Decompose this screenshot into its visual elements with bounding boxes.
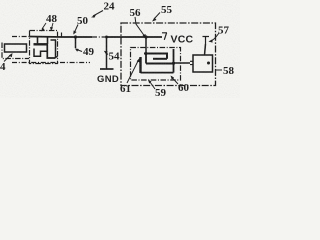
dash-dot boundary line lower xyxy=(12,62,90,64)
dashed box 48 (pass transistor cell) xyxy=(30,31,58,64)
leader arrow for 55 xyxy=(152,13,160,22)
junction dot drain node xyxy=(172,62,175,65)
junction dot at node 56 xyxy=(144,35,147,38)
label 58 with dash leader xyxy=(216,69,222,71)
label 60 xyxy=(178,82,190,94)
transistor Q1 in box 48 xyxy=(34,37,49,45)
dash-dot wire into box 48 xyxy=(12,36,30,38)
junction node 54 xyxy=(105,36,108,39)
label 24 xyxy=(104,1,116,13)
wire from rail down into inner box xyxy=(145,37,147,54)
leader arrow for 60 xyxy=(171,76,179,85)
label 59 xyxy=(155,87,167,99)
transistor Q2 in box 48 xyxy=(34,40,58,58)
label 48 xyxy=(46,13,58,25)
GND label xyxy=(97,74,119,85)
terminal 57 pin xyxy=(203,37,210,45)
paper speckle texture xyxy=(0,0,240,98)
wire terminal 57 to box 58 xyxy=(205,44,206,55)
label 55 xyxy=(161,4,173,16)
wire stub node 49 xyxy=(75,37,77,48)
label 61 xyxy=(120,83,131,95)
VCC label xyxy=(171,34,194,46)
inner dashed box (cell 59-60) xyxy=(131,48,181,81)
leader arrow for 49 xyxy=(75,48,82,51)
leader arrow for 56 xyxy=(135,17,146,39)
component 4 body rectangle xyxy=(5,44,27,52)
leader arrow for 4 xyxy=(4,53,13,62)
ground bar xyxy=(100,68,114,70)
resistor box 58 xyxy=(193,55,213,72)
leader arrow for 61 xyxy=(127,58,140,83)
label 54 xyxy=(109,51,121,63)
leader arrow for 59 xyxy=(148,80,155,90)
terminal tick on rail xyxy=(61,33,63,38)
leader arrows for 48 xyxy=(41,23,53,32)
dot inside box 58 xyxy=(207,62,210,65)
transistor Q4 (lower, in inner box) xyxy=(141,49,174,73)
dash-dot outer box 55 xyxy=(121,23,216,86)
label 50 xyxy=(77,15,89,27)
transistor Q3 (upper, in inner box) xyxy=(144,54,174,64)
VCC terminal pin xyxy=(162,33,167,40)
label 4 xyxy=(0,61,6,73)
leader arrow for 24 xyxy=(91,11,103,18)
junction dot in inner box xyxy=(145,52,148,55)
wire to resistor box 58 xyxy=(174,62,191,64)
rail into box 55 xyxy=(106,36,163,38)
label 56 xyxy=(130,7,142,19)
junction dot node 49 xyxy=(74,35,77,38)
leader arrow for 50 xyxy=(73,25,78,35)
pin ticks at box 58 input xyxy=(190,61,193,64)
label 49 xyxy=(83,46,95,58)
dashed enclosure box 4 (left component) xyxy=(2,43,29,59)
label 57 xyxy=(218,25,230,37)
leader arrow for 54 xyxy=(104,51,108,55)
wire rail through box 48 xyxy=(30,36,93,39)
wire node 54 to ground xyxy=(106,37,108,69)
dash-dot rail segment to node 54 xyxy=(92,36,105,38)
leader arrow for 57 xyxy=(209,33,220,43)
